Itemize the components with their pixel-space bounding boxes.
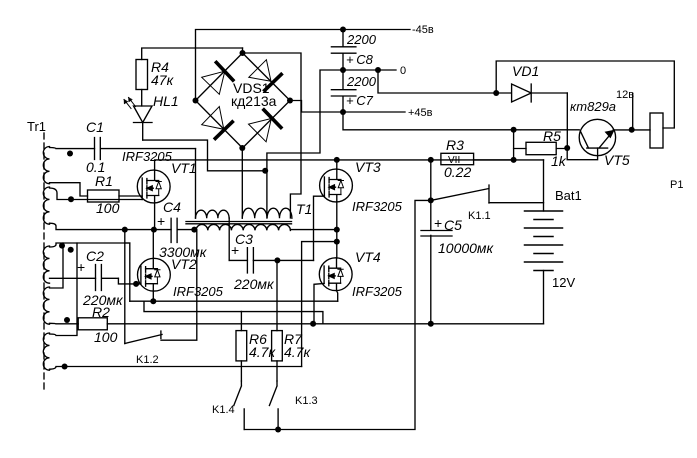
wire +45v down to collector rail [343, 112, 579, 130]
wire Tr1-II bottom to C4 rail [50, 223, 172, 229]
svg-text:VT4: VT4 [355, 249, 381, 265]
wire bridge top vertex to R4 [242, 48, 244, 53]
wire R6 top rail [144, 301, 241, 311]
wire -45v top rail [196, 30, 411, 101]
node VT3 drain rail [334, 157, 340, 163]
node C8 top [340, 27, 346, 33]
wire Tr1-IV bottom to R2 [50, 322, 79, 325]
wire Tr1-II top to VT1 gate [50, 188, 143, 200]
resistor R6 [236, 312, 247, 381]
wire 0 to VD1 row [378, 70, 496, 93]
MOSFET VT4 [319, 258, 352, 291]
resistor R7 [272, 260, 283, 381]
node Tr1-II polarity dot [68, 196, 74, 202]
transformer Tr1 core (dashed) [43, 133, 45, 390]
svg-text:R2: R2 [92, 304, 110, 320]
svg-text:VT3: VT3 [355, 159, 381, 175]
node VT1 source [151, 227, 157, 233]
node bridge top vertex [240, 50, 246, 56]
wire VD1 cathode down to R5 node [566, 93, 568, 148]
capacitor C7 [331, 70, 356, 112]
T1 primary winding [196, 224, 290, 230]
relay coil P1 [650, 113, 663, 148]
svg-text:K1.1: K1.1 [468, 210, 491, 222]
node Tr1-III polarity dots [59, 243, 65, 249]
node Tr1-I polarity dot [67, 151, 73, 157]
battery Bat1 [525, 211, 563, 324]
svg-text:+ C7: + C7 [346, 93, 374, 108]
svg-text:K1.3: K1.3 [295, 395, 318, 407]
bridge diode bottom-right [249, 119, 272, 142]
wire T1 upper-left right lead down to C3 row [228, 218, 230, 260]
wire VT1 source down to C4 rail [154, 203, 156, 230]
bridge diode bottom-left [202, 107, 224, 130]
diode VD1 [496, 84, 567, 102]
switch K1.2 [125, 230, 197, 344]
wire HL1 row to T1 center tap node [143, 140, 266, 171]
wire C4 rail left branch down (K1.2) [124, 230, 126, 344]
transistor VT5 [567, 119, 615, 159]
svg-text:кт829а: кт829а [570, 99, 616, 114]
capacitor C5 [421, 231, 452, 324]
wire VT1 drain up to main rail B [155, 160, 544, 170]
capacitor C3 [229, 248, 313, 273]
bridge diode top-left [202, 71, 225, 94]
svg-text:C1: C1 [86, 119, 104, 135]
svg-text:VT2: VT2 [171, 256, 197, 272]
node T1 primary right / VT3 source [334, 227, 340, 233]
capacitor C2 [96, 265, 119, 291]
svg-text:C5: C5 [444, 217, 462, 233]
node VD1 anode [493, 90, 499, 96]
node VT2 source [150, 298, 156, 304]
svg-text:4.7к: 4.7к [249, 344, 276, 360]
svg-text:C4: C4 [163, 199, 181, 215]
svg-text:кд213а: кд213а [231, 93, 277, 109]
wire C2 to VT2 gate [118, 278, 140, 284]
svg-text:12в: 12в [616, 89, 634, 101]
diode bridge VDS1 [196, 53, 291, 148]
MOSFET VT3 [320, 169, 353, 202]
node VT4 source rail [310, 321, 316, 327]
svg-text:1k: 1k [551, 153, 567, 169]
wire R5 left up/down to rails [513, 130, 515, 160]
Tr1 winding V [43, 333, 49, 370]
wire T1 primary right to VT3 source node [290, 229, 336, 231]
switch K1.4 [234, 381, 244, 430]
node K1.1 pivot [428, 197, 434, 203]
wire VT4 gate to source rail [314, 284, 324, 325]
svg-text:Tr1: Tr1 [27, 119, 46, 134]
wire VT2 source down to source rail [152, 291, 154, 301]
capacitor C1 [95, 138, 196, 160]
wire R6 rail right branch [241, 312, 323, 324]
node VT2 gate [133, 281, 139, 287]
capacitor C4 [171, 218, 194, 242]
node 12v probe [629, 127, 635, 133]
svg-text:10000мк: 10000мк [438, 240, 495, 256]
wire rail B to battery plus [543, 160, 545, 211]
Tr1 winding IV [43, 287, 49, 324]
resistor R4 [136, 48, 243, 106]
node C4 right / T1 primary left [191, 227, 197, 233]
wire Tr1-IV top tap [50, 243, 64, 288]
svg-text:220мк: 220мк [233, 276, 275, 292]
node 0 mid [340, 67, 346, 73]
wire Tr1-V bottom rail to VT3 drive [50, 367, 302, 370]
svg-text:2200: 2200 [346, 74, 377, 89]
switch K1.1 [431, 185, 544, 203]
node C5 bottom rail [428, 321, 434, 327]
wire Tr1-III bottom to C2 [50, 277, 96, 279]
wire bridge right vertex to +45v node [290, 101, 343, 113]
svg-text:IRF3205: IRF3205 [122, 149, 173, 164]
wire VT3 node left-down to Tr1-V rail [302, 242, 337, 367]
node T1 center tap joint [262, 168, 268, 174]
svg-text:R5: R5 [543, 128, 561, 144]
svg-text:47к: 47к [151, 72, 175, 88]
svg-text:0: 0 [400, 65, 406, 77]
svg-text:K1.4: K1.4 [212, 404, 235, 416]
svg-text:100: 100 [96, 200, 120, 216]
svg-text:HL1: HL1 [153, 93, 179, 109]
svg-text:K1.2: K1.2 [136, 354, 159, 366]
svg-text:VT1: VT1 [171, 160, 197, 176]
node Tr1-IV polarity dot [64, 317, 70, 323]
wire VT4 source jog [337, 291, 338, 302]
wire 0 stub [343, 69, 396, 71]
svg-text:+: + [434, 215, 442, 231]
resistor R1 [88, 190, 143, 202]
svg-text:+ C8: + C8 [346, 52, 374, 67]
wire VT3 drain up to rail B [336, 160, 338, 169]
node bridge right vertex [287, 98, 293, 104]
wire emitter rail to P1 [613, 129, 650, 131]
Tr1 winding III [43, 246, 49, 283]
wire C1 line down to T1 upper-left winding [195, 149, 197, 218]
svg-text:+: + [231, 242, 239, 258]
node R3 right [511, 157, 517, 163]
T1 upper-left winding (drive) [196, 210, 230, 218]
svg-text:+: + [77, 259, 85, 275]
svg-text:R1: R1 [95, 173, 113, 189]
MOSFET VT2 [138, 258, 171, 291]
wire Tr1-III top to K1.2/C4-left net [50, 243, 130, 247]
wire VT2/VT4 source rail [130, 300, 338, 302]
resistor R3 [441, 153, 514, 164]
wire +45v stub [343, 111, 405, 113]
node collector rail / R5 [511, 127, 517, 133]
wire VD1 node to P1 top [496, 61, 674, 128]
node C3 right / R7 top [274, 257, 280, 263]
svg-text:C2: C2 [86, 248, 104, 264]
wire bridge bottom vertex down to T1 [241, 148, 243, 218]
T1 secondary winding (HV, center-tapped) [242, 171, 292, 218]
Tr1 winding II [43, 187, 49, 224]
node VT3 source branch [334, 239, 340, 245]
wire VT3 source down to VT4 drain [336, 202, 338, 258]
svg-text:R3: R3 [446, 137, 464, 153]
svg-text:12V: 12V [552, 275, 575, 290]
Tr1 winding I [43, 147, 49, 184]
svg-text:100: 100 [94, 329, 118, 345]
svg-text:IRF3205: IRF3205 [352, 284, 403, 299]
node +45v [340, 109, 346, 115]
svg-text:+45в: +45в [408, 107, 433, 119]
svg-text:4.7к: 4.7к [284, 344, 311, 360]
wire C3 row up to VT3 gate [314, 196, 325, 260]
wire bridge top vertex right to T1 secondary [243, 53, 302, 218]
svg-text:Bat1: Bat1 [555, 188, 582, 203]
svg-text:T1: T1 [296, 201, 312, 217]
node Tr1-V polarity dot [62, 364, 68, 370]
resistor R2 [78, 318, 543, 330]
bridge diode top-right [249, 60, 271, 82]
node bridge bottom vertex [239, 145, 245, 151]
wire jog down to VT2 source rail [125, 243, 130, 301]
wire C5 branch [430, 160, 432, 230]
node R3 left [428, 157, 434, 163]
node C4 rail left [122, 227, 128, 233]
node bridge left vertex [193, 98, 199, 104]
wire Tr1-I top to C1 [50, 148, 95, 149]
svg-text:2200: 2200 [346, 32, 377, 47]
resistor R5 [514, 142, 568, 154]
svg-text:+: + [157, 213, 165, 229]
wire Tr1-I bottom to R1 [50, 183, 88, 196]
svg-text:IRF3205: IRF3205 [352, 199, 403, 214]
svg-text:VD1: VD1 [512, 63, 539, 79]
node 0 branch [375, 67, 381, 73]
wire 0 node down to T1 center tap [267, 70, 343, 171]
capacitor C8 [331, 30, 356, 71]
node R5 right / VT5 base [564, 145, 570, 151]
switch K1.3 [269, 381, 278, 430]
svg-text:VT5: VT5 [604, 152, 630, 168]
transformer T1 core [186, 222, 292, 224]
LED HL1 [124, 98, 152, 141]
node contacts common [275, 427, 281, 433]
svg-text:-45в: -45в [412, 24, 434, 36]
wire Tr1-V top up to drive net [50, 243, 78, 336]
svg-text:IRF3205: IRF3205 [173, 284, 224, 299]
wire VT2 drain up to C4 rail [152, 230, 154, 259]
svg-text:0.22: 0.22 [444, 164, 471, 180]
svg-text:P1: P1 [670, 179, 683, 191]
wire 12v probe [632, 94, 634, 130]
wire relay contacts common to K1.1 node [244, 200, 431, 429]
MOSFET VT1 [137, 170, 170, 203]
